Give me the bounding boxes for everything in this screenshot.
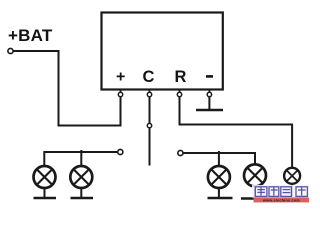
svg-text:R: R (175, 68, 187, 86)
pin + stub (120, 90, 122, 97)
node pin R (177, 92, 181, 96)
lamp L3 (208, 166, 230, 188)
lamp L2 (70, 166, 92, 188)
pin - stub (208, 90, 210, 97)
node switch right contact (178, 150, 183, 155)
wire lamp L2 lead (80, 150, 82, 166)
lamp L1 (34, 166, 56, 188)
wire C pin switch pole (149, 96, 151, 166)
wire lamp L2 to ground (80, 188, 82, 199)
svg-text:www.elecfans.com: www.elecfans.com (262, 199, 300, 203)
pin label - (206, 75, 213, 78)
ground GND4 (L3) (208, 197, 233, 200)
node +BAT terminal (8, 48, 13, 53)
pin R stub (179, 90, 181, 97)
wire lamp L3 lead (218, 151, 220, 166)
ground GND1 (flasher) (196, 109, 223, 112)
ground GND2 (L1) (34, 197, 57, 200)
wire right lamp bus (183, 153, 255, 165)
wire lamp L5 to ground (291, 184, 293, 196)
wire +BAT terminal to flasher + pin (13, 51, 120, 126)
flasher unit U1 body (102, 13, 223, 90)
svg-text:C: C (143, 68, 155, 86)
wire lamp L3 to ground (218, 188, 220, 199)
node switch pivot (147, 123, 151, 127)
svg-text:+BAT: +BAT (8, 26, 53, 45)
wire lamp L1 to ground (44, 188, 46, 199)
wire - pin to ground (208, 96, 210, 110)
node pin + (118, 92, 122, 96)
svg-text:+: + (116, 69, 125, 86)
lamp L4 (244, 164, 266, 186)
node pin - (207, 92, 211, 96)
ground GND3 (L2) (71, 197, 94, 200)
ground GND5 (L4) (241, 197, 267, 200)
wire R pin to lamp L5 (180, 96, 293, 168)
pin C stub (149, 90, 151, 97)
lamp L5 (284, 168, 300, 184)
wire lamp L4 to ground (254, 186, 256, 199)
node pin C (147, 92, 151, 96)
wire left lamp bus (44, 152, 117, 166)
node switch left contact (118, 149, 123, 154)
watermark logo (252, 185, 309, 203)
